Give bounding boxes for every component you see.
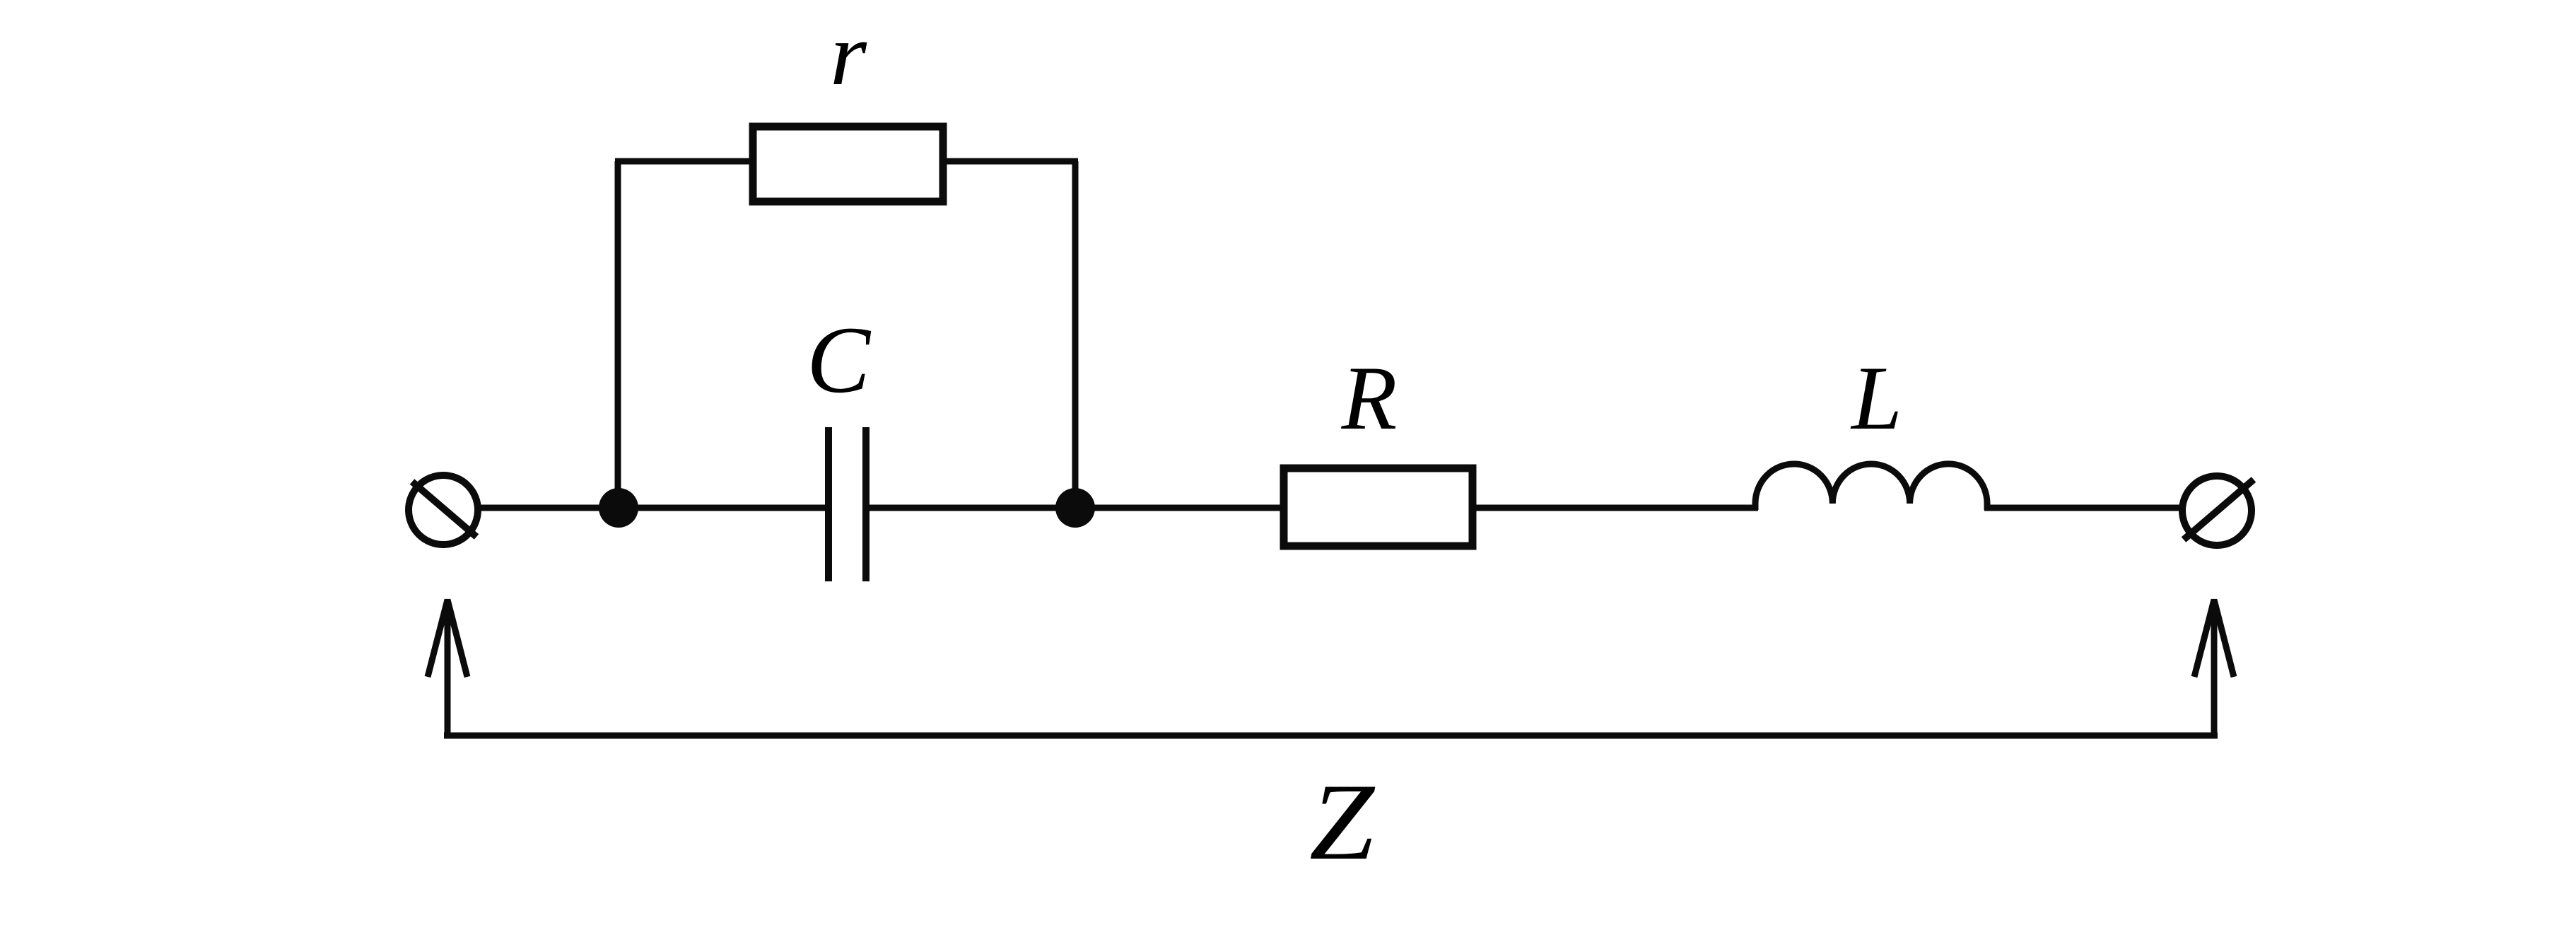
capacitor C right plate [862, 427, 870, 581]
svg-text:L: L [1850, 347, 1902, 448]
impedance bracket: horizontal line [444, 733, 2218, 739]
resistor R (box) [1284, 468, 1473, 546]
terminal J1 (left, circle with slash) [409, 475, 478, 545]
svg-text:Z: Z [1309, 761, 1376, 883]
wire: resistor R to inductor L [1475, 505, 1758, 511]
impedance bracket: right arrow shaft [2211, 607, 2218, 736]
wire: left terminal to node A [478, 505, 619, 511]
wire: branch top left segment to resistor r [615, 158, 751, 165]
impedance bracket: right arrowhead [2194, 600, 2234, 677]
svg-text:r: r [830, 6, 867, 104]
impedance bracket: left arrowhead [428, 600, 467, 677]
wire: resistor r to branch top right segment [945, 158, 1078, 165]
inductor L (3 humps) [1755, 464, 1987, 510]
node B (junction dot) [1055, 488, 1095, 528]
wire: node B to resistor R [1075, 505, 1282, 511]
wire: inductor to right terminal [1984, 505, 2182, 511]
terminal J2 (right, circle with slash) [2182, 476, 2254, 545]
capacitor C left plate [825, 427, 832, 581]
svg-text:R: R [1341, 347, 1398, 448]
wire: riser node A up to parallel branch [615, 161, 621, 511]
svg-text:C: C [807, 308, 872, 413]
wire: riser from branch down to node B [1072, 161, 1079, 511]
impedance bracket: left arrow shaft [445, 607, 451, 736]
node A (junction dot) [599, 488, 638, 528]
resistor r (box) [753, 127, 943, 202]
wire: capacitor right plate to node B [866, 505, 1075, 511]
wire: node A to capacitor left plate [619, 505, 825, 511]
